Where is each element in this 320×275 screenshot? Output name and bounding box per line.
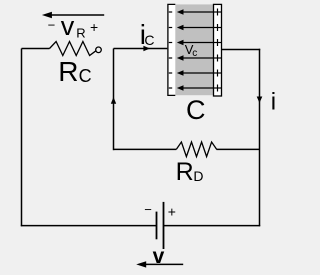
svg-text:C: C (144, 32, 154, 48)
current arrow i (down, right side) (257, 97, 263, 104)
plus signs on right plate (214, 9, 222, 92)
wire: right vertical side of loop (259, 49, 261, 226)
arrow for v (pointing left) (141, 263, 183, 265)
wire: i_C horizontal into capacitor (114, 48, 168, 50)
field arrows inside capacitor (pointing left) (182, 12, 214, 88)
svg-text:D: D (193, 168, 203, 184)
svg-text:R: R (76, 26, 85, 41)
battery source: short (negative) plate (156, 212, 158, 240)
wire: top right from capacitor plate to right side (222, 49, 261, 51)
svg-text:+: + (168, 203, 176, 219)
wire: bottom left segment to battery (21, 225, 157, 227)
svg-text:C: C (186, 95, 206, 125)
svg-text:R: R (176, 158, 194, 186)
arrow for v_R (pointing left) (46, 14, 104, 16)
resistor R_D zigzag (176, 142, 216, 157)
svg-text:R: R (58, 56, 78, 87)
wire: vertical branch down to R_D (113, 49, 115, 151)
wire: R_D right lead (217, 148, 260, 150)
svg-text:c: c (192, 48, 197, 59)
capacitor C: left plate (168, 4, 175, 95)
wire: bottom right segment from battery (164, 225, 261, 227)
capacitor C: dielectric region (175, 4, 214, 95)
svg-text:i: i (271, 88, 276, 115)
wire: R_D left lead (114, 148, 177, 150)
svg-text:C: C (79, 66, 92, 86)
minus signs on left plate (169, 12, 172, 88)
svg-text:v: v (61, 11, 75, 41)
capacitor C: right plate (214, 4, 222, 96)
svg-text:+: + (90, 19, 98, 35)
wire: left vertical side of loop (21, 49, 23, 227)
svg-text:−: − (144, 202, 152, 217)
current arrow i_C (143, 46, 150, 51)
wire: left lead of R_C (22, 48, 50, 50)
battery source: long (positive) plate (163, 202, 165, 249)
svg-text:−: − (48, 18, 56, 33)
resistor R_C zigzag with open circle terminal (50, 42, 96, 56)
current arrow up on branch (111, 97, 116, 104)
